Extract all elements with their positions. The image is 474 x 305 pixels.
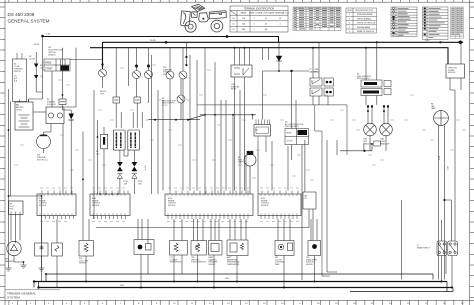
harness verticals mid-left	[83, 55, 158, 219]
diode marks tail circuit	[367, 105, 369, 107]
svg-text:2: 2	[349, 18, 350, 20]
brake switch feed	[442, 200, 452, 241]
transistor Q3	[177, 79, 185, 120]
crankshaft position sensor CPS	[308, 219, 321, 256]
fuse-relay center CC label	[309, 68, 320, 73]
bus junction dots bottom	[85, 281, 87, 283]
ground symbol battery	[6, 265, 12, 271]
symbol legend table 1	[391, 7, 417, 37]
right ruler ticks	[470, 7, 474, 297]
tail lamp labels	[363, 138, 390, 146]
diode D1	[69, 114, 75, 120]
vehicle illustration (ATV)	[181, 4, 227, 32]
wires M5 block	[292, 71, 303, 280]
FD fill bar	[103, 137, 105, 145]
glove switch diodes	[34, 64, 38, 80]
wires DM down	[253, 115, 267, 194]
lamp labels	[124, 181, 143, 185]
svg-text:VEHICLE AREA: VEHICLE AREA	[357, 17, 371, 20]
fan sensor label	[79, 258, 89, 265]
ignition module MDI	[275, 219, 294, 256]
bus left end links	[34, 274, 46, 288]
voltage regulator RR	[9, 201, 24, 215]
LED symbol DPS1	[132, 174, 137, 179]
svg-text:CON.: CON.	[100, 93, 105, 95]
fan sensor RS2	[79, 241, 94, 257]
DM label	[255, 130, 258, 132]
module B pins top	[94, 191, 128, 195]
svg-text:GENERAL SYSTEM: GENERAL SYSTEM	[8, 18, 50, 23]
accessory switch table	[285, 129, 309, 145]
svg-text:30-RD: 30-RD	[150, 40, 156, 42]
svg-text:4-GN: 4-GN	[145, 165, 147, 170]
svg-text:GLOVE: GLOVE	[29, 59, 36, 61]
wires tail lamps	[368, 105, 388, 151]
relay T1 label	[100, 91, 107, 95]
junction dots module B top	[99, 193, 101, 195]
wires M5b	[366, 42, 377, 105]
manifold pressure sensor MAPS	[209, 219, 223, 255]
ECM module connector A	[37, 194, 76, 216]
air temp sensor AMPT	[227, 219, 248, 256]
glove switch labels	[29, 56, 44, 78]
junction dot relay output b	[278, 70, 280, 72]
magneto label	[6, 259, 16, 264]
sensor box VS	[52, 243, 63, 256]
shielded junction HCS	[134, 240, 154, 255]
symbol legend table 2	[423, 7, 449, 40]
svg-text:SWITCH (RIGHT): SWITCH (RIGHT)	[285, 126, 299, 128]
wires CC block	[313, 42, 328, 105]
fuse FL1	[113, 97, 120, 103]
AMPT label	[227, 256, 240, 266]
svg-text:CTS: CTS	[170, 257, 173, 259]
additional harness verticals	[163, 55, 288, 191]
pin row labels band	[40, 187, 299, 189]
override switch panel box	[13, 59, 27, 102]
svg-text:THROTTLE: THROTTLE	[191, 259, 199, 261]
switch block text M2 left	[162, 98, 176, 107]
scattered wire tag marks	[14, 65, 466, 180]
ECM module connector C	[165, 194, 253, 216]
connector pin reference table	[451, 7, 464, 39]
svg-text:12 VDC: 12 VDC	[16, 110, 23, 112]
diode D2	[276, 42, 282, 71]
top ruler ticks	[9, 0, 463, 2]
headlamp HL1	[128, 130, 140, 150]
module A pins top	[42, 191, 72, 195]
svg-text:SENSOR: SENSOR	[79, 263, 87, 265]
junction dot above T1	[101, 63, 103, 65]
switch M2 state table	[44, 59, 70, 71]
svg-text:RUN: RUN	[287, 133, 292, 135]
switch M5b row 2	[361, 89, 382, 96]
svg-text:TEMP. SENSOR: TEMP. SENSOR	[170, 262, 183, 264]
svg-text:1: 1	[349, 14, 350, 16]
connector cell CN2	[324, 88, 334, 96]
starter motor SM	[37, 135, 51, 154]
junction dot rear feed	[363, 150, 365, 152]
glove switch wire	[36, 52, 42, 92]
module D pins top	[262, 191, 298, 195]
diode symbols tail	[367, 111, 386, 114]
fuse FL2	[134, 97, 141, 103]
svg-text:RELAY: RELAY	[231, 88, 237, 91]
harness enclosure outline	[197, 105, 347, 276]
TCM throttle module	[446, 64, 465, 78]
capacitor box C1	[35, 243, 49, 256]
svg-text:STEERING AREA: STEERING AREA	[357, 13, 373, 16]
wire T2 feed	[127, 48, 129, 86]
sheet border right ruler line	[469, 0, 471, 305]
FD label	[96, 151, 99, 155]
svg-text:POSITION: POSITION	[306, 262, 314, 264]
wires brake switches to bus	[442, 256, 453, 288]
svg-text:SENSOR: SENSOR	[209, 264, 217, 266]
multifunction switch left M5b label	[357, 74, 371, 81]
MDI dot	[280, 246, 282, 248]
bus junction dots relay feeds	[234, 47, 236, 49]
CTS label	[170, 257, 183, 264]
svg-text:4-RD: 4-RD	[425, 40, 430, 42]
svg-text:WIRE CONNECTOR NAME TERMINAL: WIRE CONNECTOR NAME TERMINAL N-N	[249, 12, 289, 15]
fuel pump label	[238, 157, 244, 164]
aux module wires	[305, 140, 313, 241]
ECM module connector D	[258, 194, 301, 216]
svg-text:TERMINAL IDENTIFICATION: TERMINAL IDENTIFICATION	[244, 7, 275, 10]
module C pins bottom	[168, 216, 248, 220]
wire battery to solenoid	[33, 111, 46, 113]
wire solenoid aux	[62, 124, 64, 195]
svg-text:DLC DBT: DLC DBT	[275, 259, 282, 261]
junction dot above T3	[147, 65, 150, 68]
bus junction dot far right	[439, 41, 441, 43]
ground symbol magneto	[21, 265, 27, 268]
svg-text:MODULE: MODULE	[448, 72, 456, 74]
sensor link wire	[96, 227, 309, 229]
junction dot left harness	[8, 129, 10, 131]
battery label	[16, 104, 25, 112]
battery B1	[15, 100, 33, 131]
module D pins bottom	[261, 216, 297, 220]
svg-text:RELAY: RELAY	[314, 70, 320, 73]
diode pair DPS1	[132, 162, 138, 171]
svg-text:ENGINE AREA: ENGINE AREA	[357, 26, 371, 29]
svg-text:HEADLIGHT: HEADLIGHT	[380, 142, 390, 145]
sheet border bottom ruler line	[0, 299, 474, 301]
junction dot above T2	[135, 65, 138, 68]
ruler numerals bottom	[12, 303, 464, 305]
relay CR2 label	[231, 84, 240, 91]
brake switch label	[417, 245, 431, 249]
main bus wire middle	[103, 42, 459, 69]
svg-text:NAME: NAME	[241, 12, 247, 15]
ground link wire	[9, 195, 42, 197]
main battery bus wire 4-RD upper	[43, 37, 279, 43]
svg-text:3: 3	[349, 23, 350, 25]
module A pins bottom	[42, 216, 74, 220]
bus right end bends	[350, 274, 453, 292]
regulator label	[10, 204, 15, 211]
left harness wire pair	[9, 89, 11, 265]
FD wires	[98, 120, 105, 194]
small fuse rear	[374, 141, 381, 146]
svg-text:REG.: REG.	[10, 209, 15, 211]
brake switch S1	[437, 241, 447, 256]
solenoid label	[47, 99, 57, 106]
ground bus thin	[46, 273, 433, 275]
svg-text:POSITION SENSOR: POSITION SENSOR	[191, 262, 207, 264]
transistor Q1	[166, 48, 174, 90]
svg-text:CPS: CPS	[306, 257, 309, 259]
wire magneto ground	[14, 256, 24, 265]
junction dots center wire	[204, 114, 206, 116]
module B pins bottom	[94, 216, 126, 220]
right long verticals	[402, 90, 456, 280]
sheet border left ruler line	[4, 0, 6, 305]
harness vertical rear	[327, 140, 337, 272]
wires TCM	[450, 42, 461, 90]
lamp distribution dots	[154, 119, 156, 121]
IC label	[431, 104, 436, 111]
junction dot relay output	[290, 70, 292, 72]
svg-text:22W: 22W	[124, 183, 128, 185]
sheet border top ruler line	[0, 1, 474, 3]
starter solenoid SS	[46, 107, 64, 124]
relay T1	[99, 69, 107, 88]
multifunction switch M2 label	[49, 47, 64, 57]
fuse feed wires	[116, 48, 142, 128]
wire switch to solenoid	[51, 71, 53, 107]
diagnostic connector DM	[254, 120, 271, 142]
bus junction dot right	[376, 41, 378, 43]
svg-text:BRAKE SWITCH: BRAKE SWITCH	[417, 246, 431, 249]
LED symbol DPS2	[117, 174, 122, 179]
main ground bus GND 2-BK	[34, 281, 447, 283]
relay CR2 feed stubs	[235, 48, 250, 191]
svg-text:LT8: LT8	[304, 198, 307, 200]
center distribution wire	[200, 114, 256, 116]
junction dots aux feed	[185, 56, 187, 58]
headlamp HL2	[113, 130, 125, 150]
relay T2	[133, 48, 141, 97]
bus junction dots bottom left	[33, 280, 35, 282]
svg-text:SWITCH: SWITCH	[14, 71, 21, 73]
junction dot solenoid aux	[62, 94, 64, 96]
terminal identification table	[230, 6, 288, 32]
svg-text:5: 5	[349, 31, 350, 33]
CPS label	[306, 257, 317, 266]
lamp bottom wires	[120, 150, 134, 194]
wires HCS	[138, 219, 148, 288]
bus junction dot left	[41, 35, 44, 38]
magneto MG	[7, 241, 21, 255]
junction dot busC mid	[165, 41, 168, 44]
override switch stubs	[17, 53, 22, 59]
junction dot ground branch	[41, 246, 43, 248]
diode pair DPS2	[117, 162, 123, 171]
module pin combs inner	[40, 194, 297, 196]
svg-text:4: 4	[349, 27, 350, 29]
aux feed wire	[185, 42, 187, 65]
bottom ruler ticks	[9, 300, 463, 305]
svg-text:22W: 22W	[138, 183, 142, 185]
module C pins top	[170, 191, 248, 195]
TPS label	[191, 257, 207, 264]
fuse F2	[59, 99, 66, 105]
throttle position sensor TPS	[191, 219, 207, 255]
CPS dot	[312, 244, 317, 249]
rear feed wire 4-RD	[340, 144, 372, 151]
front distribution FD	[101, 134, 108, 148]
svg-text:SENSOR: SENSOR	[306, 264, 314, 266]
main bus wire lower	[90, 48, 448, 64]
pin row labels band bottom	[40, 221, 299, 223]
svg-text:PRESSURE: PRESSURE	[209, 262, 218, 264]
wire fuse diode chain	[63, 48, 72, 194]
wire relay output	[263, 48, 310, 120]
wires regulator to magneto	[11, 215, 20, 244]
lamp distribution wire	[148, 115, 205, 120]
title block divider line	[5, 289, 60, 291]
shielded junction dot	[138, 245, 143, 250]
svg-text:MODULE: MODULE	[92, 205, 100, 207]
coolant temp sensor CTS	[170, 219, 188, 255]
center harness verticals	[205, 48, 246, 194]
transistor Q2	[179, 48, 187, 90]
bus junction dot center	[226, 35, 229, 38]
switch M2 active contact fill	[61, 66, 70, 71]
svg-text:PUMP: PUMP	[238, 162, 244, 164]
accessory switch active cell	[298, 130, 308, 135]
switch M5b row 1	[361, 80, 382, 87]
svg-text:MODULE: MODULE	[261, 205, 269, 207]
svg-text:ITEM DESCRIPTION: ITEM DESCRIPTION	[355, 10, 374, 12]
svg-text:4-RD: 4-RD	[46, 34, 51, 36]
svg-text:MODULE: MODULE	[39, 205, 47, 207]
svg-text:START: START	[45, 68, 53, 71]
relay cell K1	[310, 78, 322, 86]
svg-text:(START): (START)	[49, 54, 56, 57]
left ruler ticks	[0, 7, 5, 297]
wire bus to switch	[29, 37, 43, 103]
svg-text:SYSTEM: SYSTEM	[7, 296, 20, 300]
wires RS2	[83, 219, 89, 282]
relay cell K2	[310, 88, 322, 96]
accessory switch M5 label	[285, 122, 304, 129]
MAPS label	[209, 256, 218, 266]
sensor output wires to buses	[174, 255, 315, 288]
svg-text:REAR OF VEHICLE: REAR OF VEHICLE	[357, 30, 375, 33]
junction dot magneto ground	[23, 261, 25, 263]
ECM module connector B	[90, 194, 130, 216]
svg-text:FRONT OF VEHICLE: FRONT OF VEHICLE	[357, 23, 376, 25]
relay T3	[145, 48, 153, 103]
svg-text:MAGNETO: MAGNETO	[6, 260, 16, 263]
MDI label	[275, 257, 285, 266]
svg-text:TPS: TPS	[191, 257, 194, 259]
main return bus 2-BK	[39, 287, 454, 289]
bus end diamond terminal	[458, 40, 464, 44]
aux module box E	[303, 192, 316, 209]
junction dot harness	[82, 178, 84, 180]
svg-text:DS 450 2008: DS 450 2008	[8, 12, 35, 17]
transistor cluster labels	[163, 67, 173, 76]
wire switch to bus drop	[65, 48, 103, 107]
svg-text:STOP: STOP	[287, 141, 293, 143]
starter motor label	[37, 155, 46, 162]
svg-text:MODULE: MODULE	[168, 205, 176, 207]
override switch panel text	[14, 64, 24, 83]
wire color code table	[293, 7, 341, 9]
tail lamp TLA1	[380, 123, 393, 136]
svg-text:ITEM #: ITEM #	[347, 10, 354, 12]
junction dot right harness	[443, 199, 445, 201]
fuel pump FP	[244, 151, 256, 194]
brake switch S2	[448, 241, 458, 256]
connector cell CN1	[324, 78, 334, 86]
svg-text:SOLENOID: SOLENOID	[47, 104, 57, 106]
instrument cluster IC	[434, 111, 449, 126]
svg-text:4-RD: 4-RD	[439, 155, 441, 160]
tail lamp TLA2	[364, 123, 377, 136]
ground symbol mid-left	[39, 196, 45, 271]
svg-text:MOTOR: MOTOR	[37, 160, 44, 162]
starting relay CR2	[231, 60, 252, 82]
wires caps to modules	[42, 219, 58, 288]
svg-text:FREE: FREE	[45, 62, 52, 65]
junction dot FD	[97, 136, 99, 138]
item description table	[346, 8, 377, 33]
wire solenoid to starter	[44, 124, 52, 135]
TCM label	[448, 68, 458, 75]
switch M5b aux cells	[384, 81, 391, 95]
svg-text:30-RD: 30-RD	[34, 44, 40, 46]
